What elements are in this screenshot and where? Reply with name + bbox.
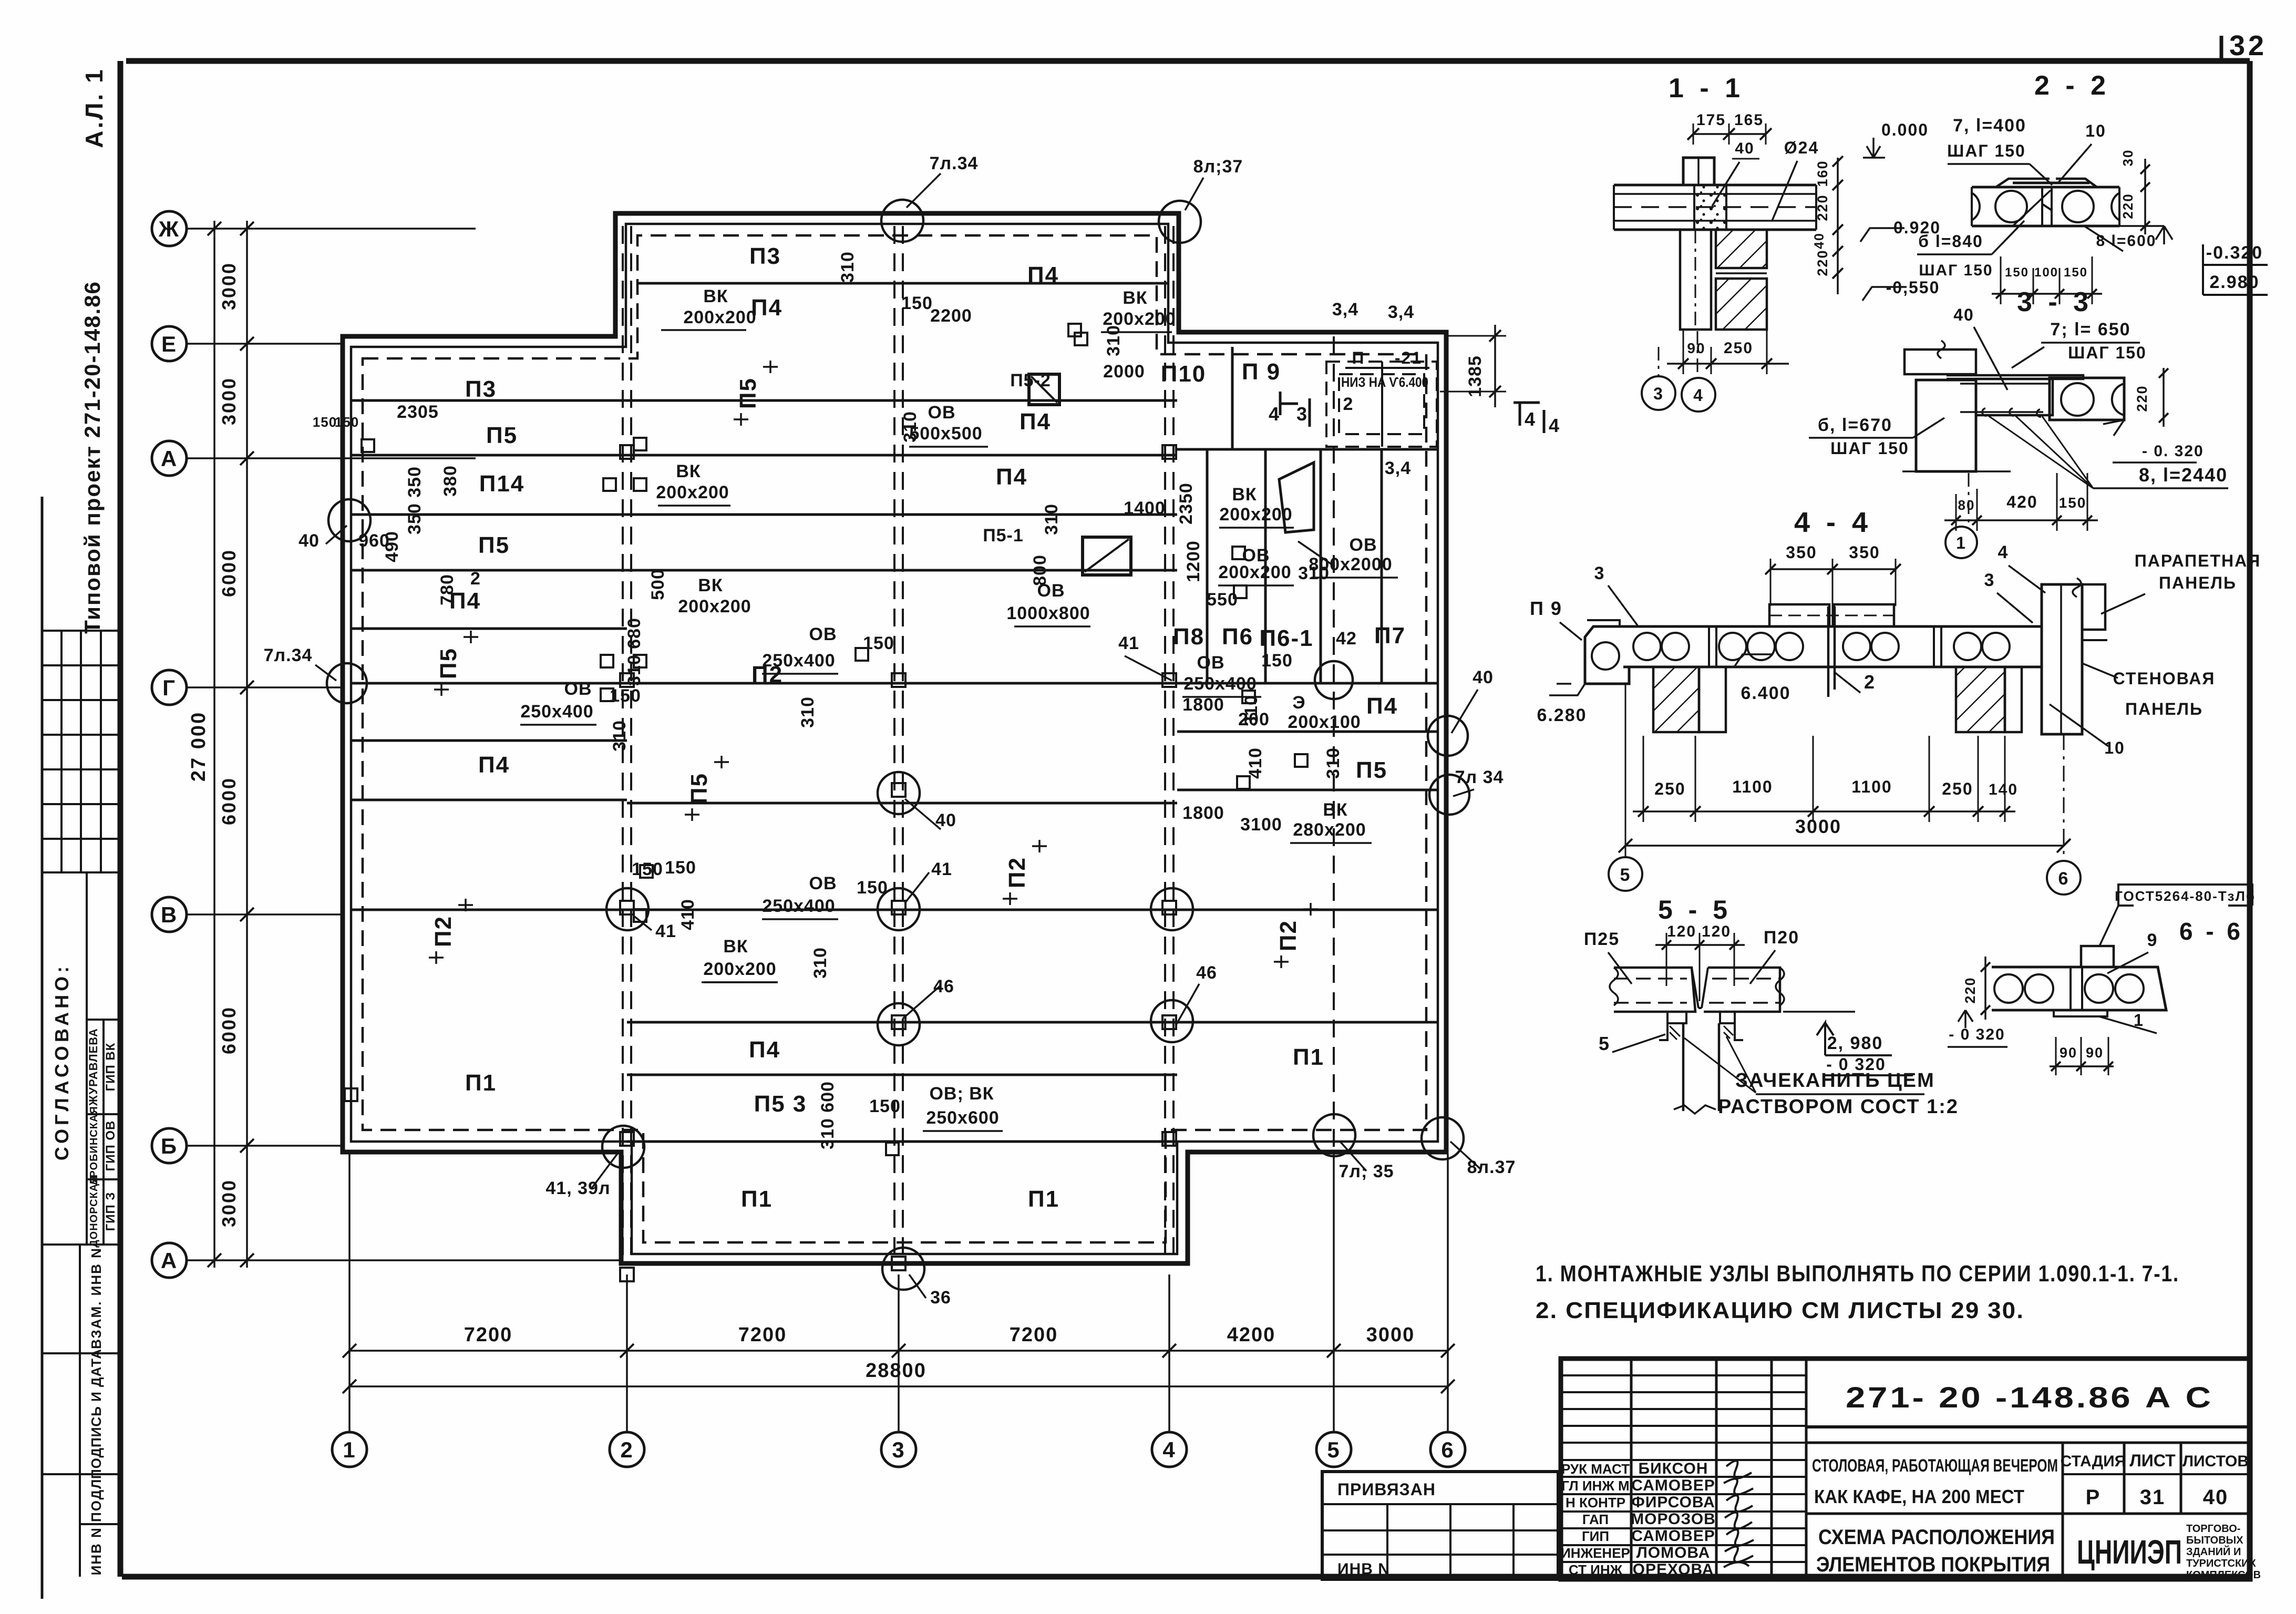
d66 level mark	[1958, 1010, 1973, 1028]
d55 leader P20	[1750, 950, 1775, 984]
axis junction plate (1193,1294)	[620, 673, 634, 687]
svg-text:-0,550: -0,550	[1886, 278, 1940, 297]
tb vert C	[1770, 1359, 1773, 1579]
plan node circle (2230,1730)	[1151, 888, 1193, 930]
svg-text:ВК: ВК	[703, 286, 728, 306]
svg-text:380: 380	[440, 465, 460, 497]
axis Д leader line	[187, 457, 476, 459]
d22 dim tick 3807	[1996, 289, 2005, 299]
svg-text:П5: П5	[486, 423, 518, 448]
axis junction plate (1710,1727)	[892, 901, 905, 914]
svg-text:1: 1	[1956, 533, 1966, 552]
d33 ext 150	[2087, 473, 2088, 531]
d11 bd ext1	[1683, 330, 1684, 374]
svg-text:150: 150	[2005, 265, 2029, 280]
sheet frame bottom border	[122, 1574, 2250, 1580]
d33 leader 7	[2012, 347, 2044, 368]
d11 chain tick 437	[1832, 224, 1843, 235]
svg-text:П2: П2	[1275, 920, 1301, 951]
svg-text:П4: П4	[1366, 693, 1398, 719]
d44 chain tick 3226	[1690, 806, 1701, 817]
svg-text:200x200: 200x200	[703, 959, 776, 979]
svg-text:ДРОБИНСКАЯ: ДРОБИНСКАЯ	[88, 1106, 100, 1186]
margin grid col line 3	[100, 631, 102, 872]
d11 wall hatched lower	[1716, 279, 1767, 330]
middle block panel joint line y866	[627, 454, 1177, 457]
trapezoid leader	[1298, 541, 1335, 567]
axis 2 dashed line b	[630, 226, 632, 1263]
d11 bd t1	[1678, 358, 1688, 369]
d44 parapet panel	[2082, 584, 2105, 630]
svg-text:БЫТОВЫХ: БЫТОВЫХ	[2186, 1535, 2243, 1546]
d11 chain tick 520	[1832, 268, 1843, 279]
svg-text:ВК: ВК	[1232, 485, 1257, 505]
d44 hollow core 3587	[1871, 633, 1899, 660]
svg-text:40: 40	[1473, 667, 1494, 687]
plan node circle (665,990)	[328, 499, 370, 541]
svg-text:2. СПЕЦИФИКАЦИЮ СМ ЛИСТЫ 2: 2. СПЕЦИФИКАЦИЮ СМ ЛИСТЫ 29 30.	[1536, 1298, 2024, 1323]
svg-text:150: 150	[335, 414, 359, 430]
svg-text:410: 410	[1245, 747, 1265, 779]
d22 right chain	[2144, 159, 2146, 234]
svg-text:3: 3	[1296, 403, 1308, 425]
d33 bottom tick 3762	[1972, 516, 1982, 525]
d22 underline 840	[1917, 253, 1992, 255]
d22 hollow partial right	[2112, 193, 2119, 220]
axis circle Д	[152, 441, 187, 476]
d44 ext line 3226	[1695, 736, 1696, 822]
d33 slab right	[2050, 378, 2124, 420]
svg-text:-21: -21	[1395, 348, 1422, 367]
leader line to circle (2760,2172)	[1450, 1142, 1481, 1169]
svg-text:П4: П4	[1020, 409, 1051, 435]
svg-text:ВЗАМ. ИНВ N: ВЗАМ. ИНВ N	[88, 1247, 104, 1349]
svg-text:П5: П5	[436, 647, 461, 679]
svg-text:310: 310	[900, 411, 920, 443]
d55 column base break	[1674, 1105, 1716, 1114]
sheet frame top border	[126, 58, 2250, 64]
axis Г leader line	[187, 686, 343, 688]
svg-text:200x200: 200x200	[656, 482, 729, 502]
tb row line 2908	[1561, 1527, 1806, 1529]
d55 level arrow	[1817, 1023, 1834, 1055]
d33 bent bar	[1960, 384, 2050, 412]
d66 leader gost	[2099, 906, 2118, 946]
d22 dim tick 3869	[2029, 289, 2038, 299]
axis junction plate (1193,1727)	[620, 901, 634, 914]
svg-text:780: 780	[437, 574, 457, 605]
left block panel joint line y1196	[351, 628, 627, 630]
margin grid row line 2	[42, 699, 120, 701]
margin grid row line 6	[42, 838, 120, 840]
plan node circle (660,1300)	[327, 663, 367, 703]
svg-text:40: 40	[2203, 1486, 2229, 1509]
d11 wall joint line	[1716, 272, 1767, 274]
d55 dim line	[1655, 944, 1745, 946]
d33 leader 6	[1913, 418, 1944, 438]
axis Б leader line	[187, 1145, 343, 1147]
label underline at (2320,1004)	[1219, 527, 1294, 529]
svg-text:2 - 2: 2 - 2	[2034, 70, 2110, 101]
margin approval block divider	[86, 872, 88, 1245]
svg-text:П4: П4	[749, 1037, 780, 1063]
svg-text:САМОВЕР: САМОВЕР	[1631, 1527, 1715, 1545]
column circle 4	[1152, 1432, 1187, 1467]
dim 1385 tick top	[1489, 330, 1501, 342]
axis circle Е	[152, 326, 187, 361]
svg-text:7, l=400: 7, l=400	[1953, 116, 2026, 136]
svg-text:ГЛ ИНЖ М: ГЛ ИНЖ М	[1561, 1478, 1629, 1494]
d11 slab left end	[1613, 185, 1615, 230]
d44 pier left leaf	[1699, 667, 1726, 732]
svg-text:РУК МАСТ: РУК МАСТ	[1561, 1461, 1630, 1477]
dim 1385 vertical line	[1494, 325, 1496, 407]
svg-text:3: 3	[1984, 570, 1995, 590]
svg-text:ИНВ N: ИНВ N	[1337, 1560, 1390, 1578]
svg-text:2305: 2305	[397, 402, 439, 422]
d44 chain tick 3127	[1638, 806, 1649, 817]
d55 slab right	[1704, 968, 1780, 1012]
small opening square (1218,845)	[634, 438, 646, 450]
svg-text:150: 150	[901, 293, 933, 313]
label underline at (990,1379)	[520, 724, 596, 726]
svg-text:10: 10	[2104, 738, 2125, 757]
svg-text:5 - 5: 5 - 5	[1658, 895, 1732, 924]
tb row line 2972	[1561, 1561, 1806, 1563]
svg-text:8л;37: 8л;37	[1193, 157, 1243, 177]
svg-text:165: 165	[1734, 111, 1764, 129]
axis circle А	[152, 1243, 187, 1278]
svg-text:2: 2	[620, 1437, 633, 1462]
svg-text:8л.37: 8л.37	[1467, 1157, 1516, 1177]
svg-text:40: 40	[1953, 305, 1974, 324]
bottom dim tick col 1	[343, 1344, 356, 1358]
label underline at (1730,850)	[909, 446, 988, 448]
svg-text:1100: 1100	[1851, 777, 1892, 796]
svg-text:3 - 3: 3 - 3	[2017, 287, 2093, 317]
small opening square (2360,1126)	[1234, 585, 1247, 598]
svg-text:П10: П10	[1161, 361, 1207, 387]
d22 joint diag leader	[2013, 190, 2051, 226]
d55 gasket right hatch	[1724, 1026, 1733, 1039]
svg-text:А: А	[161, 446, 178, 471]
d44 leader 2	[1835, 673, 1860, 693]
svg-text:4 - 4: 4 - 4	[1794, 507, 1872, 538]
d44 hollow core 3533	[1843, 633, 1870, 660]
svg-text:П4: П4	[1027, 262, 1059, 288]
dim 1385 ext bottom	[1440, 391, 1506, 393]
svg-text:5: 5	[1327, 1437, 1340, 1462]
d33 label underline b	[1809, 437, 1913, 439]
left block panel joint line y1522	[351, 799, 627, 801]
d22 level box vert	[2202, 244, 2204, 295]
svg-text:ОВ: ОВ	[1350, 535, 1377, 555]
d66 dim ext lines	[2056, 1037, 2108, 1075]
d66 leader 1	[2099, 1016, 2157, 1033]
d66 hollow core 3994	[2085, 974, 2113, 1003]
svg-text:РАСТВОРОМ СОСТ 1:2: РАСТВОРОМ СОСТ 1:2	[1718, 1096, 1959, 1118]
d44 cap angle	[1587, 620, 1620, 626]
small opening square (1155,1322)	[601, 688, 613, 701]
middle block panel joint line y1085	[627, 569, 1177, 572]
svg-text:2350: 2350	[1176, 482, 1196, 525]
dim tick at axis В	[240, 908, 254, 921]
d11 bd t2	[1706, 358, 1716, 369]
d11 level 0.920 mark	[1860, 228, 1904, 242]
label underline at (2095,632)	[1101, 331, 1172, 333]
svg-text:1 - 1: 1 - 1	[1669, 73, 1744, 104]
plan node circle (1710,1730)	[878, 888, 920, 930]
d44 dim tick 3487	[1827, 564, 1838, 574]
d55 slab dash left	[1614, 978, 1687, 980]
svg-text:310: 310	[1323, 747, 1343, 779]
svg-text:350 350: 350 350	[405, 466, 425, 534]
left block panel joint line y1300	[351, 682, 627, 685]
d33 hollow core b partial	[2112, 384, 2124, 415]
axis stub col 6	[1447, 1154, 1449, 1431]
d44 3000 t2	[2057, 839, 2071, 852]
column circle 6	[1430, 1432, 1465, 1467]
svg-text:б l=840: б l=840	[1918, 232, 1983, 251]
bottom overall dim line	[349, 1385, 1448, 1387]
right block vertical panel joint x2297	[1206, 449, 1209, 683]
d44 joint break b	[1934, 626, 1941, 667]
leader line to circle (1718,1938)	[903, 985, 941, 1019]
svg-text:П5-1: П5-1	[983, 526, 1024, 546]
d44 hollow core 3744	[1954, 633, 1981, 660]
svg-text:ОВ; ВК: ОВ; ВК	[929, 1084, 994, 1104]
svg-text:ОВ: ОВ	[1037, 581, 1065, 601]
d11 ext a	[1693, 124, 1694, 145]
svg-text:-0.320: -0.320	[2206, 243, 2263, 263]
svg-text:ПАРАПЕТНАЯ: ПАРАПЕТНАЯ	[2135, 551, 2261, 570]
middle block panel joint line y1945	[627, 1021, 1177, 1024]
svg-text:7л.34: 7л.34	[930, 153, 979, 173]
d33 parapet stub	[1904, 349, 1976, 374]
svg-text:220: 220	[2134, 385, 2150, 412]
d44 hollow core 3297	[1719, 633, 1746, 660]
d33 right chain	[2163, 368, 2165, 427]
top-right page mark tick	[2220, 36, 2223, 61]
bottom dim tick col 4	[1162, 1344, 1176, 1358]
svg-text:П5: П5	[478, 532, 510, 558]
plan outer wall outline	[343, 213, 1446, 1263]
svg-text:б, l=670: б, l=670	[1818, 415, 1892, 435]
d55 t2	[1695, 940, 1704, 950]
axis stub col 5	[1333, 1154, 1335, 1431]
overall dim tick right	[1441, 1380, 1455, 1393]
d11 bd ext2	[1711, 347, 1712, 374]
d11 slab dash axis	[1614, 206, 1816, 208]
svg-text:27 000: 27 000	[188, 711, 210, 782]
svg-text:СТАДИЯ: СТАДИЯ	[2061, 1453, 2126, 1470]
svg-text:490: 490	[382, 531, 402, 562]
svg-text:3: 3	[1653, 384, 1664, 403]
svg-text:7200: 7200	[464, 1324, 513, 1346]
plan node circle (1719,2414)	[882, 1248, 924, 1290]
sheet frame right border	[2247, 61, 2253, 1581]
svg-text:7л; 35: 7л; 35	[1339, 1161, 1394, 1181]
axis junction plate (1193,2167)	[620, 1132, 634, 1146]
svg-text:350: 350	[1786, 543, 1817, 562]
svg-text:ПАНЕЛЬ: ПАНЕЛЬ	[2125, 700, 2203, 718]
svg-text:2: 2	[1864, 671, 1876, 693]
svg-text:150: 150	[313, 414, 337, 430]
svg-text:3: 3	[1594, 563, 1605, 583]
svg-text:2: 2	[470, 569, 481, 589]
svg-text:П6: П6	[1222, 624, 1253, 650]
tb divider schema	[1806, 1513, 2250, 1515]
d44 hollow core 3405	[1776, 633, 1803, 660]
svg-text:ВК: ВК	[676, 461, 701, 481]
svg-text:ЛОМОВА: ЛОМОВА	[1636, 1544, 1711, 1561]
d44 stub 5	[1625, 684, 1626, 857]
svg-text:1800: 1800	[1182, 803, 1224, 823]
d55 slab dash right	[1712, 978, 1780, 980]
d44 cap core	[1592, 642, 1619, 670]
bottom dim tick col 3	[892, 1344, 905, 1358]
tb row line 2617	[1561, 1374, 1806, 1376]
dim tick 27000 bottom	[208, 1253, 221, 1267]
svg-text:ЗДАНИЙ И: ЗДАНИЙ И	[2186, 1545, 2241, 1558]
leader line to circle (640,1295)	[315, 665, 336, 681]
d22 slab bottom	[1972, 225, 2119, 228]
leader line to circle (2255,400)	[1185, 178, 1203, 210]
d66 leader 9	[2107, 952, 2148, 973]
pv row1	[1322, 1503, 1558, 1505]
d33 label 8 underline	[2093, 487, 2228, 489]
d66 dim tick 3912	[2051, 1062, 2061, 1071]
d66 dim 9090 line	[2050, 1065, 2114, 1067]
axis stub col 3	[898, 1274, 900, 1431]
d55 text underline	[1756, 1093, 1924, 1095]
svg-text:310 680: 310 680	[624, 618, 644, 686]
small opening square (700,848)	[362, 439, 374, 452]
right block panel joint line y1731	[1177, 909, 1438, 911]
leader line to circle (1722,1718)	[905, 872, 929, 903]
d44 pier right	[1956, 667, 2005, 732]
d11 wall left leaf	[1680, 230, 1711, 330]
svg-text:П1: П1	[741, 1186, 773, 1212]
svg-text:250x400: 250x400	[762, 651, 835, 671]
pv row2	[1322, 1529, 1558, 1531]
svg-text:200: 200	[1238, 710, 1270, 729]
svg-text:220: 220	[1815, 249, 1830, 276]
pv col1	[1386, 1504, 1388, 1579]
d11 level 0.000 mark	[1863, 138, 1885, 158]
tb vert B	[1715, 1359, 1718, 1579]
d44 leader stenov	[2082, 663, 2118, 678]
svg-text:СТ ИНЖ: СТ ИНЖ	[1569, 1562, 1623, 1578]
svg-text:6000: 6000	[218, 549, 240, 597]
leader line to circle (2765,1515)	[1453, 789, 1474, 796]
d44 level mark 6400	[1734, 654, 1773, 667]
svg-text:ГОСТ5264-80-ТзЛб: ГОСТ5264-80-ТзЛб	[2115, 888, 2256, 904]
opening P5-2 square	[1029, 374, 1059, 405]
axis junction plate (2225,1294)	[1162, 673, 1176, 687]
margin divider inv2	[80, 1523, 120, 1525]
d11 axis stub 3	[1658, 347, 1660, 376]
margin approval block top	[42, 871, 120, 873]
plan inner wall line	[351, 224, 1438, 1254]
axis junction plate (1193,860)	[620, 445, 634, 459]
tb vert A	[1630, 1359, 1633, 1579]
d11 bd ext3	[1766, 330, 1768, 374]
small opening square (2357,1052)	[1232, 547, 1245, 559]
svg-text:ШАГ 150: ШАГ 150	[1919, 262, 1993, 279]
d44 stub 6	[2063, 734, 2065, 860]
leader line to circle (1722,1520)	[905, 799, 941, 829]
left block panel joint line y1085	[351, 569, 627, 572]
d44 ext line 3764	[1978, 736, 1979, 822]
svg-text:П4: П4	[996, 464, 1027, 490]
d44 right wall inner	[2060, 584, 2062, 734]
axis junction plate (1193,2425)	[620, 1268, 634, 1281]
svg-text:42: 42	[1336, 629, 1357, 649]
margin divider inv	[42, 1473, 120, 1475]
svg-text:П 9: П 9	[1530, 598, 1562, 619]
d33 ext 80a	[1955, 494, 1957, 531]
svg-text:САМОВЕР: САМОВЕР	[1631, 1477, 1715, 1494]
d55 slab dash right2	[1709, 1002, 1780, 1004]
d55 t1	[1662, 940, 1671, 950]
svg-text:10: 10	[2085, 121, 2106, 140]
svg-text:ОВ: ОВ	[1197, 653, 1225, 673]
svg-text:ПРИВЯЗАН: ПРИВЯЗАН	[1337, 1480, 1436, 1499]
svg-text:КОМПЛЕКСОВ: КОМПЛЕКСОВ	[2186, 1569, 2261, 1581]
d11 dim line top	[1693, 133, 1766, 135]
svg-text:А.Л. 1: А.Л. 1	[80, 67, 108, 148]
svg-text:220: 220	[1815, 194, 1830, 221]
svg-text:6: 6	[2058, 869, 2070, 889]
svg-text:Ж: Ж	[158, 217, 180, 241]
svg-text:410: 410	[678, 899, 698, 930]
svg-text:ИНВ N ПОДЛ: ИНВ N ПОДЛ	[88, 1478, 104, 1576]
svg-text:4: 4	[1525, 408, 1536, 430]
small opening square (1640,1245)	[856, 648, 868, 661]
approval row line 4	[42, 1243, 120, 1246]
svg-text:3000: 3000	[218, 1179, 240, 1227]
svg-text:П25: П25	[1584, 929, 1620, 949]
dim 1385 ext top	[1448, 335, 1506, 337]
dim tick at axis Г	[240, 681, 254, 694]
svg-text:250x400: 250x400	[520, 702, 593, 722]
tb vert D	[1805, 1359, 1808, 1579]
small opening square (1698,2186)	[886, 1143, 899, 1155]
d55 leader zach b	[1726, 1036, 1756, 1093]
svg-text:40: 40	[1812, 232, 1827, 249]
d44 joint break a	[1709, 626, 1716, 667]
d66 hollow core 3880	[2025, 974, 2053, 1003]
svg-text:П1: П1	[1028, 1186, 1059, 1212]
d66 top plate	[2081, 946, 2114, 967]
tb stadia divider v2	[2123, 1443, 2126, 1514]
svg-text:90: 90	[2060, 1045, 2077, 1061]
svg-text:6 - 6: 6 - 6	[2179, 918, 2243, 945]
axis junction plate (1710,1945)	[892, 1015, 905, 1029]
d44 pier right leaf	[2005, 667, 2022, 732]
column circle 1	[332, 1432, 367, 1467]
svg-text:150: 150	[2064, 265, 2088, 280]
tb org divider v	[2062, 1514, 2064, 1579]
d55 slab left	[1614, 968, 1695, 1012]
svg-text:6.400: 6.400	[1741, 683, 1790, 703]
d33 bottom tick 3972	[2083, 516, 2092, 525]
shaft P-21 outer dashed	[1326, 362, 1437, 447]
d55 leader P25	[1608, 952, 1632, 984]
d33 top flange	[1947, 375, 2083, 379]
label underline at (2495,1099)	[1311, 577, 1398, 579]
